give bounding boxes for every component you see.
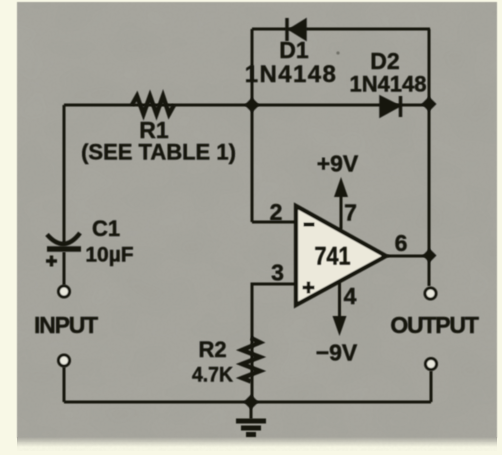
input terminal upper [59,286,70,297]
op-amp plus input mark [303,282,315,294]
junction node at R1/D1/pin2 [245,98,260,113]
svg-text:INPUT: INPUT [34,312,98,338]
resistor R2 [242,338,260,382]
wire: lower input stub [63,367,66,402]
wire: C1 to upper input terminal [63,252,66,285]
svg-text:(SEE TABLE 1): (SEE TABLE 1) [81,140,236,165]
wire: right vertical rail [428,29,431,286]
svg-text:1N4148: 1N4148 [245,61,337,88]
wire: pin 2 stub [252,221,296,224]
+9V supply arrow (pin 7) [340,194,343,229]
svg-text:4.7K: 4.7K [192,364,233,387]
resistor R1 [132,96,174,114]
wire: ground stub [250,402,253,419]
wire: pin 3 stub and R2 vertical [252,284,296,402]
output terminal upper [425,288,436,299]
C1 plus sign [46,256,57,267]
wire: top feedback D1 wire [252,28,430,31]
input terminal lower [59,355,70,366]
capacitor C1 [47,233,80,244]
svg-text:−9V: −9V [316,340,358,366]
wire: left vertical to C1 [63,105,66,243]
diode D1 [289,19,306,40]
svg-text:2: 2 [270,199,283,225]
junction node at pin6/right rail [423,249,437,263]
svg-text:OUTPUT: OUTPUT [390,312,479,338]
diode D2 [380,96,400,117]
ground [236,421,266,435]
svg-text:4: 4 [344,283,357,309]
svg-text:7: 7 [344,200,357,226]
svg-text:3: 3 [271,260,284,286]
wire: main horizontal R1/D2 wire [64,104,430,107]
svg-text:1N4148: 1N4148 [349,72,426,97]
svg-text:+9V: +9V [317,151,359,177]
svg-text:741: 741 [315,243,351,271]
output terminal lower [426,359,437,370]
wire: bottom rail [64,401,431,404]
op-amp minus input mark [304,223,315,227]
wire: left side of feedback loop, down to pin2 node [251,29,254,222]
stray scan speck [336,51,339,54]
-9V supply arrow (pin 4) [338,282,341,318]
junction node at R2/bottom rail [244,395,259,410]
svg-text:R2: R2 [198,337,226,362]
svg-text:10µF: 10µF [85,244,133,267]
op-amp U1 741 [296,206,386,305]
svg-text:D1: D1 [279,37,309,63]
junction node at D2/right rail [422,97,437,112]
svg-text:D2: D2 [370,48,399,74]
wire: lower output stub [430,371,433,402]
svg-text:6: 6 [395,230,408,256]
wire: pin 6 output stub [387,255,429,258]
svg-text:C1: C1 [92,216,120,241]
